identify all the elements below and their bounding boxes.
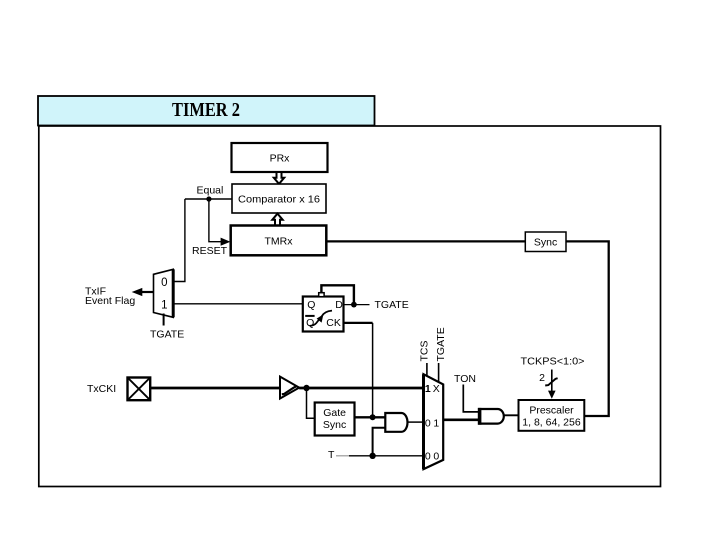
wire Equal from comparator	[185, 198, 232, 200]
wire T to big mux input 00	[349, 455, 424, 457]
open arrow TMRx to Comparator	[272, 214, 282, 226]
svg-text:1: 1	[161, 299, 167, 311]
clock edge symbol	[310, 311, 333, 326]
outer frame	[39, 126, 661, 487]
svg-text:TCKPS<1:0>: TCKPS<1:0>	[521, 356, 585, 368]
svg-text:TGATE: TGATE	[375, 299, 409, 311]
svg-text:Prescaler: Prescaler	[529, 405, 574, 417]
wire TxCKI to buffer	[150, 387, 280, 390]
wire T up to AND lower input	[373, 428, 385, 456]
wire Equal down to TxIF mux input 0	[173, 199, 185, 282]
bus width slash	[545, 378, 557, 385]
svg-text:1: 1	[425, 383, 431, 395]
svg-text:CK: CK	[326, 317, 341, 329]
title bar TIMER 2	[38, 96, 375, 126]
wire big mux output to AND	[443, 418, 479, 421]
wire TxIF output	[142, 291, 154, 293]
arrowhead TxIF	[132, 288, 143, 296]
wire AND to prescaler	[504, 414, 519, 416]
svg-text:Event Flag: Event Flag	[85, 295, 135, 307]
open arrow PRx to Comparator	[274, 172, 284, 184]
block Prescaler	[519, 400, 585, 431]
node gate sync / CK junction	[370, 414, 376, 420]
node T junction	[369, 453, 375, 459]
wire D output	[344, 304, 370, 306]
svg-text:TMRx: TMRx	[265, 236, 294, 248]
svg-text:RESET: RESET	[192, 245, 228, 257]
svg-text:TIMER 2: TIMER 2	[172, 99, 240, 121]
register PRx	[232, 143, 328, 172]
svg-text:Q: Q	[306, 317, 314, 329]
node D/TGATE junction	[351, 302, 357, 308]
svg-text:0: 0	[425, 450, 431, 462]
mux big (TCS/TGATE select)	[424, 374, 444, 469]
buffer schmitt trigger	[280, 377, 299, 399]
wire AND output to big mux input 01	[408, 421, 424, 423]
svg-text:1, 8, 64, 256: 1, 8, 64, 256	[522, 417, 581, 429]
register TMRx	[231, 226, 327, 256]
svg-text:0: 0	[425, 418, 431, 430]
svg-text:TCS: TCS	[418, 341, 430, 362]
wire feedback loop to D	[321, 285, 354, 303]
svg-text:Sync: Sync	[323, 419, 346, 431]
comparator block	[232, 184, 326, 213]
svg-text:2: 2	[539, 372, 545, 384]
svg-text:Sync: Sync	[534, 237, 557, 249]
wire TGATE select stub of TxIF mux	[163, 314, 165, 326]
node Equal junction	[206, 196, 211, 201]
wire TCS select stub	[426, 363, 428, 376]
svg-text:1: 1	[433, 418, 439, 430]
svg-text:X: X	[433, 383, 440, 395]
svg-text:TGATE: TGATE	[435, 327, 447, 361]
wire Gate Sync output to AND	[355, 416, 386, 418]
node after buffer	[303, 385, 309, 391]
wire Equal to RESET	[209, 199, 222, 242]
wire TON to AND	[463, 385, 479, 412]
wire CK to gate sync node	[344, 322, 373, 324]
wire node down to Gate Sync	[307, 388, 315, 418]
wire buffer to big mux input 1X	[299, 387, 423, 390]
svg-text:Equal: Equal	[197, 185, 224, 197]
flip-flop TGATE latch	[303, 297, 344, 332]
pin TxCKI (crossed box)	[128, 378, 151, 401]
svg-text:D: D	[335, 299, 343, 311]
svg-text:TON: TON	[454, 373, 476, 385]
wire TCKPS bus into prescaler	[551, 370, 553, 392]
wire TGATE select stub	[438, 363, 440, 382]
svg-text:0: 0	[161, 277, 167, 289]
svg-text:T: T	[328, 449, 335, 461]
svg-text:Comparator x 16: Comparator x 16	[238, 194, 320, 206]
svg-text:0: 0	[433, 450, 439, 462]
wire mux input 1 to flip-flop Q	[173, 303, 303, 305]
svg-text:PRx: PRx	[270, 153, 291, 165]
svg-text:Q: Q	[307, 299, 315, 311]
block Sync	[525, 232, 566, 252]
svg-text:TGATE: TGATE	[150, 329, 184, 341]
arrowhead bus into prescaler	[548, 391, 556, 399]
wire T tail	[336, 455, 349, 457]
and gate (TON path)	[479, 409, 504, 424]
svg-text:TxCKI: TxCKI	[87, 383, 116, 395]
notch on flip-flop top	[319, 293, 324, 297]
mux TxIF (0/1)	[154, 269, 174, 317]
arrowhead RESET into TMRx	[221, 238, 231, 246]
and gate (gate sync path)	[385, 413, 407, 432]
wire TMRx to Sync	[326, 240, 525, 242]
svg-text:Gate: Gate	[323, 407, 346, 419]
block Gate Sync	[315, 403, 355, 436]
wire Sync to right rail	[566, 241, 609, 416]
